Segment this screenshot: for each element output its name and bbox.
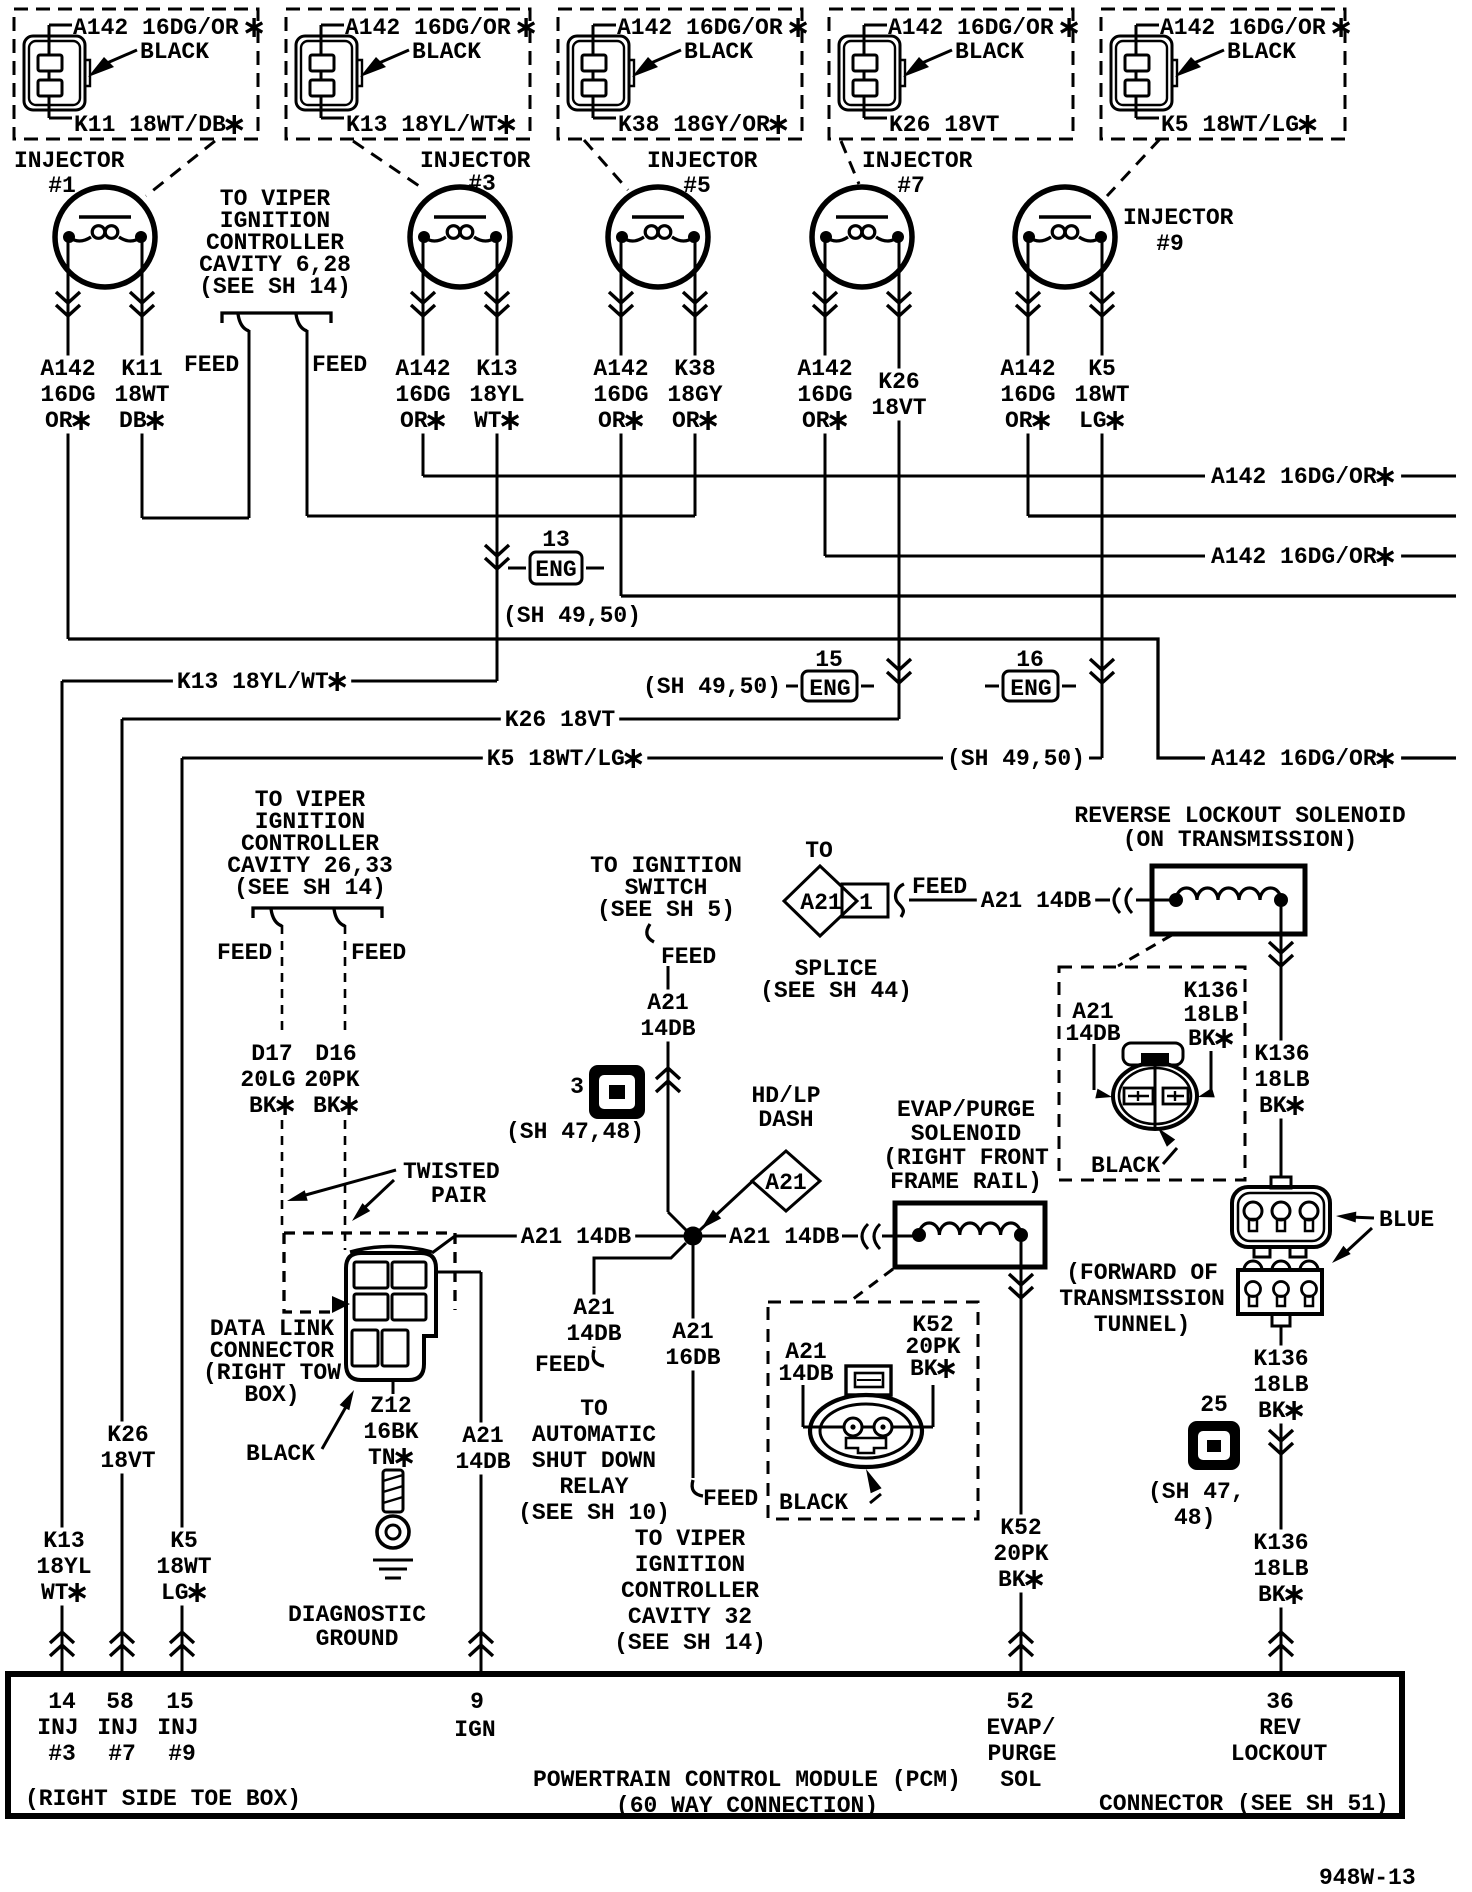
svg-text:K136: K136 <box>1183 978 1238 1004</box>
connector symbol -((- at EVAP/PURGE solenoid <box>862 1224 868 1249</box>
junction splice dot A21 <box>684 1227 703 1246</box>
wire A142 lead from injector (x=68) <box>67 237 70 639</box>
2-way oval connector (black) drawing <box>810 1395 922 1467</box>
svg-text:BLUE: BLUE <box>1379 1207 1434 1233</box>
svg-text:(ON TRANSMISSION): (ON TRANSMISSION) <box>1123 827 1358 853</box>
svg-text:A142 16DG/OR: A142 16DG/OR <box>1211 464 1377 490</box>
svg-text:K38 18GY/OR: K38 18GY/OR <box>618 112 770 138</box>
off-sheet diamond A21 (HD/LP dash) <box>752 1151 820 1211</box>
svg-text:A21 14DB: A21 14DB <box>729 1224 840 1250</box>
wire K5 18WT/LG* horizontal run to left side <box>182 757 1102 760</box>
leader lines in connector detail box <box>802 1385 805 1427</box>
svg-text:K26: K26 <box>107 1422 148 1448</box>
injector #1 (solenoid coil symbol) <box>55 187 155 287</box>
svg-text:K5 18WT/LG: K5 18WT/LG <box>487 746 625 772</box>
svg-text:16DG: 16DG <box>40 382 95 408</box>
dashed box: EVAP/PURGE solenoid connector detail <box>768 1302 978 1519</box>
wire A142 lead from injector (x=423) <box>422 237 425 476</box>
svg-text:#7: #7 <box>897 173 925 199</box>
round 4-way connector (black) drawing <box>1113 1063 1197 1129</box>
svg-text:AUTOMATIC: AUTOMATIC <box>532 1422 656 1448</box>
svg-text:#5: #5 <box>683 173 711 199</box>
svg-text:FEED: FEED <box>312 352 367 378</box>
svg-text:OR: OR <box>802 408 830 434</box>
svg-text:BK: BK <box>1258 1398 1286 1424</box>
svg-text:(SEE SH 14): (SEE SH 14) <box>614 1630 766 1656</box>
wire A142 from injector #1 routed right and down with label A142 16DG/OR* <box>68 639 1456 758</box>
svg-text:K13: K13 <box>43 1528 84 1554</box>
svg-text:16DG: 16DG <box>1000 382 1055 408</box>
svg-text:Z12: Z12 <box>370 1393 411 1419</box>
svg-text:CAVITY 32: CAVITY 32 <box>628 1604 752 1630</box>
wire K13 lead from injector (x=497) <box>496 237 499 681</box>
wire FEED A21 14DB to reverse lockout solenoid <box>896 884 904 917</box>
svg-text:16DG: 16DG <box>593 382 648 408</box>
svg-text:(SEE SH 5): (SEE SH 5) <box>597 897 735 923</box>
svg-text:BK: BK <box>1259 1093 1287 1119</box>
label FEED (ignition switch) <box>647 924 654 942</box>
wire K26 18VT horizontal run to left side <box>122 718 899 721</box>
labels D17 20LG BK* and D16 20PK BK* <box>247 1041 296 1067</box>
svg-text:D16: D16 <box>315 1041 356 1067</box>
svg-text:A142 16DG/OR: A142 16DG/OR <box>1211 544 1377 570</box>
svg-text:K5: K5 <box>1088 356 1116 382</box>
svg-text:(SEE SH 44): (SEE SH 44) <box>760 978 912 1004</box>
svg-text:BK: BK <box>249 1093 277 1119</box>
svg-text:A21: A21 <box>800 890 841 916</box>
svg-text:PURGE: PURGE <box>988 1741 1057 1767</box>
svg-text:A21 14DB: A21 14DB <box>521 1224 632 1250</box>
svg-text:18LB: 18LB <box>1183 1002 1238 1028</box>
svg-text:FEED: FEED <box>703 1486 758 1512</box>
svg-text:A21: A21 <box>647 990 688 1016</box>
dashed leader from connector box to injector #7 <box>841 141 859 184</box>
svg-text:INJECTOR: INJECTOR <box>647 148 758 174</box>
svg-text:#1: #1 <box>48 173 76 199</box>
svg-text:K26: K26 <box>878 369 919 395</box>
wire A142 from injector #9 to right edge <box>1028 514 1456 517</box>
svg-text:FRAME RAIL): FRAME RAIL) <box>890 1169 1042 1195</box>
svg-text:LOCKOUT: LOCKOUT <box>1231 1741 1328 1767</box>
svg-text:OR: OR <box>400 408 428 434</box>
dashed leader from connector box to injector #1 <box>146 141 215 196</box>
dashed leader from connector box to injector #3 <box>353 141 425 190</box>
svg-text:25: 25 <box>1200 1392 1228 1418</box>
wire A21 16DB from junction down to viper ignition controller cavity 32 <box>692 1245 695 1478</box>
svg-text:WT: WT <box>474 408 502 434</box>
svg-text:BK: BK <box>998 1567 1026 1593</box>
svg-text:3: 3 <box>570 1074 584 1100</box>
svg-text:BK: BK <box>1188 1026 1216 1052</box>
svg-text:52: 52 <box>1006 1689 1034 1715</box>
svg-text:K136: K136 <box>1254 1041 1309 1067</box>
powertrain control module (PCM) 60-way connector box <box>8 1674 1402 1816</box>
label FEED (splice to reverse lockout) <box>910 876 974 897</box>
svg-text:K13: K13 <box>476 356 517 382</box>
svg-text:BK: BK <box>910 1356 938 1382</box>
svg-text:14DB: 14DB <box>778 1361 833 1387</box>
svg-text:13: 13 <box>542 527 570 553</box>
svg-text:SOL: SOL <box>1000 1767 1041 1793</box>
reverse lockout solenoid coil box <box>1152 866 1305 934</box>
svg-text:K26 18VT: K26 18VT <box>889 112 1000 138</box>
svg-text:RELAY: RELAY <box>560 1474 629 1500</box>
wire D16 20PK/BK* twisted pair (dashed) <box>344 925 347 1035</box>
wire bus A142 16DG/OR* (from injector #3) with label <box>423 475 1456 478</box>
svg-text:16DB: 16DB <box>665 1345 720 1371</box>
svg-text:TRANSMISSION: TRANSMISSION <box>1059 1286 1225 1312</box>
wire A21 14DB from junction to EVAP/PURGE solenoid <box>693 1235 726 1238</box>
label FEED (viper ignition controller cavity 32) <box>692 1480 703 1496</box>
wire bus A142 16DG/OR* (from injector #7) with label <box>825 555 1456 558</box>
svg-text:INJ: INJ <box>157 1715 198 1741</box>
off-sheet tag 13 ENG (SH 49,50) on K13 wire <box>485 545 509 569</box>
svg-text:EVAP/: EVAP/ <box>987 1715 1056 1741</box>
injector #7 harness connector (dashed box with 2-way connector, A142 16DG/OR* / BLACK) <box>829 9 1077 139</box>
wire K26 vertical down left side to PCM pin 58 <box>121 719 124 1674</box>
dashed leader from connector box to injector #9 <box>1107 139 1160 196</box>
svg-text:36: 36 <box>1266 1689 1294 1715</box>
svg-text:(60 WAY CONNECTION): (60 WAY CONNECTION) <box>616 1793 878 1819</box>
wire K136 from connector to PCM pin 36 with labels <box>1280 1326 1283 1674</box>
svg-text:1: 1 <box>859 890 873 916</box>
svg-text:INJECTOR: INJECTOR <box>14 148 125 174</box>
wire D17 20LG/BK* twisted pair (dashed) <box>281 925 284 1035</box>
svg-text:K13 18YL/WT: K13 18YL/WT <box>346 112 498 138</box>
svg-text:18GY: 18GY <box>667 382 722 408</box>
wire A142 lead from injector (x=621) <box>620 237 623 596</box>
svg-text:18WT: 18WT <box>1074 382 1129 408</box>
svg-text:14DB: 14DB <box>566 1321 621 1347</box>
wire A142 lead from injector (x=825) <box>824 237 827 556</box>
svg-text:TO: TO <box>580 1396 608 1422</box>
svg-text:K26 18VT: K26 18VT <box>505 707 616 733</box>
svg-text:REV: REV <box>1259 1715 1301 1741</box>
svg-text:A21: A21 <box>765 1170 806 1196</box>
injector #9 harness connector (dashed box with 2-way connector, A142 16DG/OR* / BLACK) <box>1101 9 1349 139</box>
connector symbol -((- at reverse lockout solenoid <box>1114 888 1120 913</box>
wire K5 vertical down left side to PCM pin 15 <box>181 758 184 1674</box>
wire A142 lead from injector (x=1028) <box>1027 237 1030 516</box>
svg-text:18WT: 18WT <box>156 1554 211 1580</box>
diagonal wire from junction up to HD/LP DASH diamond with arrow <box>700 1177 757 1230</box>
wire K38 to FEED horizontal <box>307 515 695 518</box>
wire K26 lead from injector (x=899) <box>898 237 901 719</box>
wire K11 to FEED horizontal <box>142 517 249 520</box>
wire from data link connector to PCM pin 9 (A21 14DB) <box>436 1271 481 1274</box>
svg-text:K38: K38 <box>674 356 715 382</box>
dashed box: reverse lockout solenoid connector detail <box>1059 967 1245 1180</box>
svg-text:A142: A142 <box>593 356 648 382</box>
bracket under viper ignition controller cavity 26,33 <box>253 908 382 918</box>
svg-text:(SH 47,: (SH 47, <box>1148 1479 1245 1505</box>
svg-text:GROUND: GROUND <box>316 1626 399 1652</box>
svg-text:IGNITION: IGNITION <box>635 1552 745 1578</box>
svg-text:20PK: 20PK <box>304 1067 359 1093</box>
svg-text:(SH 47,48): (SH 47,48) <box>506 1119 644 1145</box>
wire A142 from injector #5 to right edge <box>621 594 1456 597</box>
svg-text:14DB: 14DB <box>640 1016 695 1042</box>
svg-text:#3: #3 <box>48 1741 76 1767</box>
injector #9 (solenoid coil symbol) <box>1015 187 1115 287</box>
svg-text:K11: K11 <box>121 356 162 382</box>
svg-text:A142: A142 <box>1000 356 1055 382</box>
dashed leader from EVAP/PURGE solenoid to connector detail box <box>849 1269 893 1302</box>
svg-text:FEED: FEED <box>351 940 406 966</box>
svg-text:A142: A142 <box>395 356 450 382</box>
svg-text:#9: #9 <box>1156 231 1184 257</box>
svg-text:BLACK: BLACK <box>246 1441 315 1467</box>
svg-text:INJ: INJ <box>37 1715 78 1741</box>
ground symbol (diagnostic ground) <box>373 1559 413 1562</box>
svg-text:16BK: 16BK <box>363 1419 418 1445</box>
svg-text:18YL: 18YL <box>469 382 524 408</box>
svg-text:14DB: 14DB <box>1065 1021 1120 1047</box>
svg-text:D17: D17 <box>251 1041 292 1067</box>
injector #3 harness connector (dashed box with 2-way connector, A142 16DG/OR* / BLACK) <box>286 9 534 139</box>
svg-text:IGN: IGN <box>454 1717 495 1743</box>
svg-text:BOX): BOX) <box>244 1382 299 1408</box>
3-way connector (blue) upper half <box>1271 1177 1291 1188</box>
svg-text:15: 15 <box>166 1689 194 1715</box>
svg-text:16DG: 16DG <box>395 382 450 408</box>
wire K11 lead from injector (x=142) <box>141 237 144 518</box>
svg-text:DASH: DASH <box>758 1107 813 1133</box>
svg-text:HD/LP: HD/LP <box>752 1083 821 1109</box>
svg-text:CONTROLLER: CONTROLLER <box>621 1578 759 1604</box>
svg-text:18VT: 18VT <box>871 395 926 421</box>
svg-text:#3: #3 <box>468 171 496 197</box>
3-way connector (blue) lower half <box>1238 1270 1322 1314</box>
svg-text:15: 15 <box>815 647 843 673</box>
svg-text:16: 16 <box>1016 647 1044 673</box>
svg-text:TO: TO <box>805 838 833 864</box>
wire K13 vertical down left side to PCM pin 14 <box>61 681 64 1674</box>
injector #1 harness connector (dashed box with 2-way connector, A142 16DG/OR* / BLACK) <box>14 9 262 139</box>
svg-text:K5: K5 <box>170 1528 198 1554</box>
svg-text:SHUT DOWN: SHUT DOWN <box>532 1448 656 1474</box>
svg-text:FEED: FEED <box>184 352 239 378</box>
svg-text:OR: OR <box>598 408 626 434</box>
svg-text:DB: DB <box>119 408 147 434</box>
svg-text:(RIGHT FRONT: (RIGHT FRONT <box>883 1145 1049 1171</box>
svg-text:A142: A142 <box>797 356 852 382</box>
svg-text:PAIR: PAIR <box>431 1183 486 1209</box>
svg-text:18WT: 18WT <box>114 382 169 408</box>
svg-text:OR: OR <box>45 408 73 434</box>
wire FEED right (to K38) <box>306 330 309 516</box>
svg-text:FEED: FEED <box>912 874 967 900</box>
wire K52 20PK/BK* from EVAP/PURGE solenoid to PCM pin 52 <box>895 1235 919 1238</box>
svg-text:DIAGNOSTIC: DIAGNOSTIC <box>288 1602 426 1628</box>
svg-text:58: 58 <box>106 1689 134 1715</box>
svg-text:OR: OR <box>672 408 700 434</box>
svg-text:INJECTOR: INJECTOR <box>1123 205 1234 231</box>
svg-text:14: 14 <box>48 1689 76 1715</box>
svg-text:K136: K136 <box>1253 1530 1308 1556</box>
svg-text:A21: A21 <box>462 1423 503 1449</box>
svg-text:948W-13: 948W-13 <box>1319 1865 1416 1891</box>
svg-text:POWERTRAIN CONTROL MODULE (PCM: POWERTRAIN CONTROL MODULE (PCM) <box>533 1767 961 1793</box>
svg-text:A142: A142 <box>40 356 95 382</box>
svg-text:(RIGHT SIDE TOE BOX): (RIGHT SIDE TOE BOX) <box>25 1786 301 1812</box>
injector #5 (solenoid coil symbol) <box>608 187 708 287</box>
svg-text:WT: WT <box>41 1580 69 1606</box>
svg-text:#9: #9 <box>168 1741 196 1767</box>
EVAP/PURGE solenoid coil box <box>895 1203 1045 1267</box>
data link connector (right tow box) body <box>346 1253 436 1380</box>
svg-text:A21 14DB: A21 14DB <box>981 888 1092 914</box>
svg-text:18LB: 18LB <box>1253 1556 1308 1582</box>
svg-text:20PK: 20PK <box>993 1541 1048 1567</box>
wire from data link connector up to A21 junction line <box>432 1236 455 1253</box>
svg-text:FEED: FEED <box>217 940 272 966</box>
svg-text:9: 9 <box>470 1689 484 1715</box>
svg-text:A21: A21 <box>573 1295 614 1321</box>
svg-text:18LB: 18LB <box>1253 1372 1308 1398</box>
svg-text:EVAP/PURGE: EVAP/PURGE <box>897 1097 1035 1123</box>
dashed leader from connector box to injector #5 <box>584 140 628 190</box>
injector #7 (solenoid coil symbol) <box>812 187 912 287</box>
wire A21 14DB from ignition switch to junction <box>667 966 670 1212</box>
svg-text:48): 48) <box>1174 1505 1215 1531</box>
svg-text:16DG: 16DG <box>797 382 852 408</box>
svg-text:14DB: 14DB <box>455 1449 510 1475</box>
svg-text:A142 16DG/OR: A142 16DG/OR <box>1211 746 1377 772</box>
svg-text:LG: LG <box>1079 408 1107 434</box>
wire K5 lead from injector (x=1102) <box>1101 237 1104 758</box>
svg-text:(SH 49,50): (SH 49,50) <box>947 746 1085 772</box>
svg-text:K136: K136 <box>1253 1346 1308 1372</box>
svg-text:A21: A21 <box>672 1319 713 1345</box>
svg-text:ENG: ENG <box>809 676 850 702</box>
svg-text:TUNNEL): TUNNEL) <box>1094 1312 1191 1338</box>
wire A21 14DB from data link connector to junction <box>455 1235 693 1238</box>
svg-text:20LG: 20LG <box>240 1067 295 1093</box>
svg-text:K13 18YL/WT: K13 18YL/WT <box>177 669 329 695</box>
svg-text:BK: BK <box>313 1093 341 1119</box>
dashed shield box around data link connector <box>284 1233 455 1310</box>
svg-text:REVERSE LOCKOUT SOLENOID: REVERSE LOCKOUT SOLENOID <box>1074 803 1405 829</box>
svg-text:18LB: 18LB <box>1254 1067 1309 1093</box>
ground bolt and eyelet <box>383 1470 403 1512</box>
svg-text:TN: TN <box>368 1445 396 1471</box>
wire K13 18YL/WT* horizontal run to left side <box>62 680 497 683</box>
svg-text:BK: BK <box>1258 1582 1286 1608</box>
svg-text:ENG: ENG <box>1010 676 1051 702</box>
svg-text:SOLENOID: SOLENOID <box>911 1121 1021 1147</box>
svg-text:ENG: ENG <box>535 557 576 583</box>
wire FEED left (to K11) <box>248 330 251 518</box>
svg-text:TWISTED: TWISTED <box>403 1159 500 1185</box>
svg-text:(SH 49,50): (SH 49,50) <box>643 674 781 700</box>
labels K13 18YL WT* / K5 18WT LG* on left vertical wires <box>39 1528 88 1554</box>
svg-text:(SEE SH 10): (SEE SH 10) <box>518 1500 670 1526</box>
off-sheet tag 3 (SH 47,48) <box>589 1065 645 1119</box>
svg-text:#7: #7 <box>108 1741 136 1767</box>
wire A21 14DB FEED branch to automatic shut down relay <box>594 1243 686 1348</box>
svg-text:K11 18WT/DB: K11 18WT/DB <box>74 112 226 138</box>
injector #5 harness connector (dashed box with 2-way connector, A142 16DG/OR* / BLACK) <box>558 9 806 139</box>
svg-text:BLACK: BLACK <box>1091 1153 1160 1179</box>
wire K38 lead from injector (x=695) <box>694 237 697 516</box>
dashed leader from reverse lockout solenoid to connector detail box <box>1118 935 1172 966</box>
svg-text:FEED: FEED <box>535 1352 590 1378</box>
svg-text:OR: OR <box>1005 408 1033 434</box>
svg-text:TO VIPER: TO VIPER <box>635 1526 746 1552</box>
wire from data link connector to diagnostic ground, Z12 16BK/TN* <box>392 1380 395 1394</box>
svg-text:BLACK: BLACK <box>779 1490 848 1516</box>
arrow into data link connector left side <box>332 1296 350 1313</box>
svg-text:INJ: INJ <box>97 1715 138 1741</box>
svg-text:18VT: 18VT <box>100 1448 155 1474</box>
svg-text:(SEE SH 14): (SEE SH 14) <box>234 875 386 901</box>
wire K136 18LB/BK* from reverse lockout solenoid down to PCM pin 36 <box>1152 899 1176 902</box>
svg-text:18YL: 18YL <box>36 1554 91 1580</box>
svg-text:(FORWARD OF: (FORWARD OF <box>1066 1260 1218 1286</box>
label K136 18LB BK* right of detail box <box>1250 1041 1313 1067</box>
svg-text:LG: LG <box>161 1580 189 1606</box>
svg-text:(SH 49,50): (SH 49,50) <box>503 603 641 629</box>
injector #3 (solenoid coil symbol) <box>410 187 510 287</box>
leader lines with arrows to round connector <box>1093 1044 1096 1090</box>
off-sheet diamond A21 with terminal 1 (splice feed) <box>784 866 857 936</box>
svg-text:K52: K52 <box>1000 1515 1041 1541</box>
svg-text:CONNECTOR (SEE SH 51): CONNECTOR (SEE SH 51) <box>1099 1791 1389 1817</box>
bracket under viper ignition controller cavity 6,28 <box>222 313 331 323</box>
svg-text:(SEE SH 14): (SEE SH 14) <box>199 274 351 300</box>
svg-text:K5 18WT/LG: K5 18WT/LG <box>1161 112 1299 138</box>
svg-text:INJECTOR: INJECTOR <box>862 148 973 174</box>
